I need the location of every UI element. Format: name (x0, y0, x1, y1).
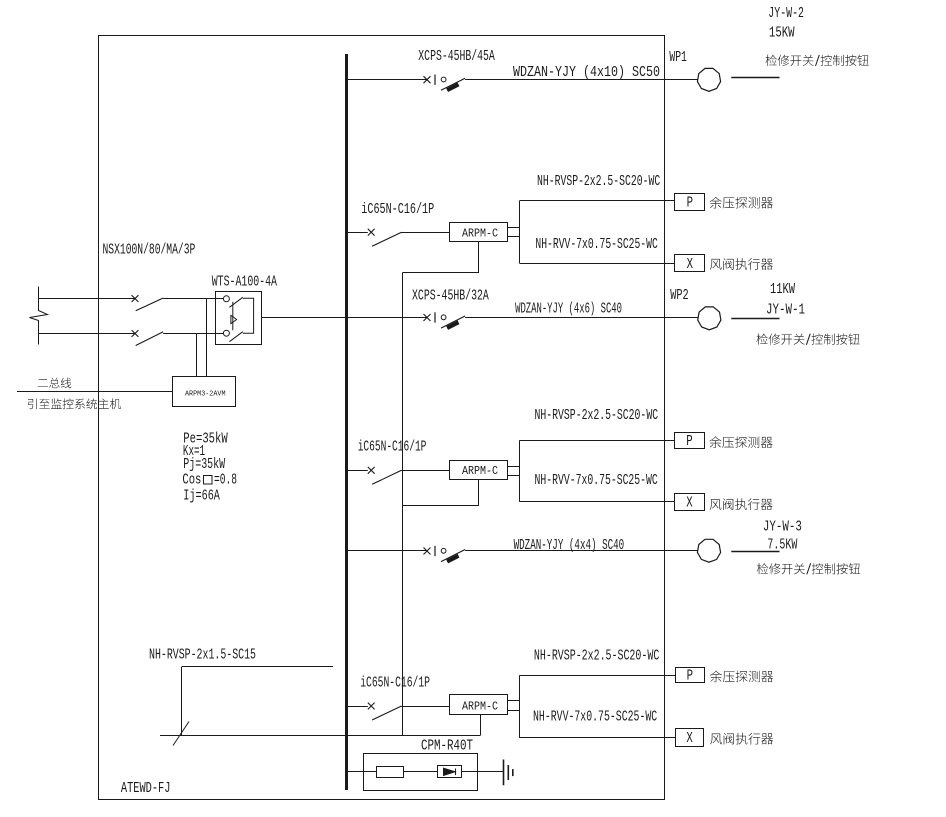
svg-text:Pj=35kW: Pj=35kW (183, 457, 226, 473)
wire branch WP2 to frame (465, 317, 664, 319)
svg-text:WP1: WP1 (669, 50, 687, 66)
wire two-bus to monitoring host (17, 391, 173, 393)
svg-text:iC65N-C16/1P: iC65N-C16/1P (358, 440, 427, 456)
svg-text:ATEWD-FJ: ATEWD-FJ (121, 781, 170, 797)
cps XCPS-45HB/45A symbol (424, 75, 466, 92)
label 余压探测器 #2 (709, 436, 772, 448)
wire ARPM-C #2 down to riser (403, 480, 479, 506)
svg-text:ARPM-C: ARPM-C (462, 226, 498, 240)
motor M WP1 circle (697, 68, 720, 91)
label 检修开关/控制按钮 WP1 (766, 55, 869, 66)
wire sense B (196, 333, 198, 376)
arrester arrow (444, 768, 456, 775)
cps XCPS symbol WP3 (424, 546, 466, 563)
svg-text:NSX100N/80/MA/3P: NSX100N/80/MA/3P (103, 243, 196, 259)
wire branch mcb1 stub (346, 232, 368, 234)
box P detector #2 (675, 433, 705, 449)
wire branch WP3 to frame (465, 550, 664, 552)
svg-text:JY-W-2: JY-W-2 (768, 6, 804, 22)
wire arrester to ground (461, 771, 503, 773)
svg-text:NH-RVSP-2x2.5-SC20-WC: NH-RVSP-2x2.5-SC20-WC (537, 174, 660, 190)
svg-text:NH-RVV-7x0.75-SC25-WC: NH-RVV-7x0.75-SC25-WC (535, 237, 657, 253)
wire WP2 to motor (664, 317, 698, 319)
wire to X actuator #2 (520, 501, 675, 503)
wire branch mcb3 stub (346, 706, 368, 708)
wire ARPM-C #3 down (480, 715, 482, 736)
svg-text:X: X (686, 495, 692, 511)
svg-text:P: P (686, 434, 692, 450)
wire bus to fuse (346, 771, 377, 773)
svg-text:WDZAN-YJY (4x6) SC40: WDZAN-YJY (4x6) SC40 (515, 302, 622, 318)
wire mcb3 to ARPM-C (402, 706, 450, 708)
wire branch WP1 left (346, 79, 427, 81)
wire mcb1 to ARPM-C (402, 232, 450, 234)
mcb iC65N-C16/1P #2 symbol (368, 467, 402, 484)
svg-text:11KW: 11KW (770, 282, 796, 298)
wire ARPM-C #2 out top stub (507, 466, 519, 468)
outer frame (99, 36, 665, 800)
svg-text:JY-W-1: JY-W-1 (766, 303, 805, 319)
wire ARPM-C #3 out bottom stub (507, 710, 519, 712)
box P detector #1 (675, 194, 705, 211)
wire ATS output to bus (261, 317, 346, 319)
wire ARPM-C #1 down to riser (403, 242, 479, 273)
label 检修开关/控制按钮 WP3 (757, 563, 860, 574)
controller ARPM-C #3 box (450, 695, 508, 715)
wire to P detector #3 (520, 675, 676, 677)
ground symbol (504, 760, 513, 786)
mcb iC65N-C16/1P #1 symbol (368, 229, 402, 246)
motor M WP2 circle (698, 307, 721, 330)
wire to ATS top contact (163, 298, 223, 300)
svg-text:NH-RVV-7x0.75-SC25-WC: NH-RVV-7x0.75-SC25-WC (535, 473, 658, 489)
wire ARPM-C #1 out bottom stub (507, 236, 519, 238)
meter ARPM3-2AVM box (173, 377, 236, 407)
wire ARPM-C #3 out riser (519, 675, 521, 738)
transfer switch U-ATS box (216, 292, 262, 345)
surge protector CPM-R40T box (364, 754, 478, 791)
wire to X actuator #1 (520, 263, 675, 265)
leader dash WP2 (731, 318, 779, 320)
fuse F1 (377, 767, 404, 778)
wire ARPM-C #1 out riser (519, 201, 521, 263)
svg-text:ARPM3-2AVM: ARPM3-2AVM (185, 390, 226, 398)
label 风阀执行器 #2 (710, 498, 773, 510)
wire WP1 to motor (664, 79, 698, 81)
svg-text:WTS-A100-4A: WTS-A100-4A (212, 275, 278, 291)
box X actuator #2 (675, 494, 705, 511)
control riser wire (402, 273, 404, 736)
wire branch WP3 left (346, 550, 427, 552)
wire mcb2 to ARPM-C (402, 470, 450, 472)
box X actuator #3 (676, 729, 704, 747)
ATS contacts and mechanism (223, 296, 253, 342)
cps XCPS-45HB/32A symbol (424, 312, 466, 329)
leader dash WP3 (731, 551, 779, 553)
wire phase bottom (39, 333, 135, 335)
wire phase top (39, 298, 135, 300)
leader underline NH-RVSP-2x1.5 (182, 666, 334, 668)
cable slash mark (173, 722, 189, 746)
label 风阀执行器 #3 (710, 733, 773, 745)
label 检修开关/控制按钮 WP2 (756, 333, 859, 344)
wire to X actuator #3 (520, 737, 676, 739)
svg-text:WDZAN-YJY (4x10) SC50: WDZAN-YJY (4x10) SC50 (513, 65, 660, 81)
mcb iC65N-C16/1P #3 symbol (368, 703, 402, 720)
wire ARPM-C #2 out bottom stub (507, 475, 519, 477)
wire branch WP2 left (346, 317, 427, 319)
wire to P detector #2 (520, 440, 675, 442)
wire ARPM-C #3 out top stub (507, 700, 519, 702)
svg-text:WDZAN-YJY (4x4) SC40: WDZAN-YJY (4x4) SC40 (514, 538, 625, 554)
svg-text:WP2: WP2 (670, 288, 688, 304)
label 余压探测器 #1 (710, 197, 773, 209)
breaker Q1 NSX100N pole 1 (132, 295, 164, 311)
svg-text:P: P (687, 196, 693, 212)
breaker Q1 NSX100N pole 2 (132, 330, 164, 345)
label 余压探测器 #3 (710, 670, 773, 682)
svg-text:Ij=66A: Ij=66A (183, 489, 220, 505)
label 风阀执行器 #1 (710, 258, 773, 270)
wire to P detector #1 (520, 200, 675, 202)
svg-text:Cos: Cos (182, 473, 201, 489)
arrester box (438, 766, 462, 778)
incoming supply break symbol (30, 287, 48, 345)
wire control cable NH-RVSP-2x1.5 (160, 735, 480, 737)
svg-text:XCPS-45HB/32A: XCPS-45HB/32A (412, 289, 490, 305)
box P detector #3 (676, 668, 705, 683)
svg-text:NH-RVSP-2x2.5-SC20-WC: NH-RVSP-2x2.5-SC20-WC (534, 648, 659, 664)
svg-text:NH-RVSP-2x2.5-SC20-WC: NH-RVSP-2x2.5-SC20-WC (535, 408, 659, 424)
wire branch mcb2 stub (346, 470, 368, 472)
wire branch WP1 to frame (465, 79, 664, 81)
wire sense A (206, 299, 208, 377)
svg-text:X: X (686, 731, 692, 747)
svg-text:JY-W-3: JY-W-3 (763, 520, 802, 536)
wire ARPM-C #1 out top stub (507, 227, 519, 229)
motor M WP3 circle (697, 539, 720, 562)
wire fuse to arrester (404, 771, 438, 773)
svg-text:15KW: 15KW (769, 26, 795, 42)
leader drop NH-RVSP-2x1.5 (181, 667, 183, 736)
svg-text:XCPS-45HB/45A: XCPS-45HB/45A (418, 49, 495, 65)
wire ARPM-C #2 out riser (519, 440, 521, 501)
controller ARPM-C #1 box (450, 223, 508, 242)
box X actuator #1 (675, 255, 705, 272)
controller ARPM-C #2 box (450, 461, 508, 480)
svg-text:NH-RVSP-2x1.5-SC15: NH-RVSP-2x1.5-SC15 (149, 648, 256, 664)
main vertical bus (345, 54, 348, 790)
svg-text:CPM-R40T: CPM-R40T (421, 739, 473, 755)
svg-text:=0.8: =0.8 (214, 473, 237, 489)
svg-text:ARPM-C: ARPM-C (462, 700, 498, 714)
wire WP3 to motor (664, 550, 698, 552)
svg-text:ARPM-C: ARPM-C (462, 464, 498, 478)
svg-text:iC65N-C16/1P: iC65N-C16/1P (361, 202, 434, 218)
label 引至监控系统主机 (28, 398, 121, 409)
label 二总线 (38, 378, 72, 389)
wire to ATS bottom contact (163, 333, 223, 335)
svg-text:iC65N-C16/1P: iC65N-C16/1P (360, 675, 430, 691)
svg-text:X: X (687, 257, 693, 273)
svg-text:NH-RVV-7x0.75-SC25-WC: NH-RVV-7x0.75-SC25-WC (533, 709, 657, 725)
leader dash WP1 (731, 77, 779, 79)
svg-text:7.5KW: 7.5KW (767, 537, 798, 553)
svg-text:P: P (687, 669, 693, 685)
